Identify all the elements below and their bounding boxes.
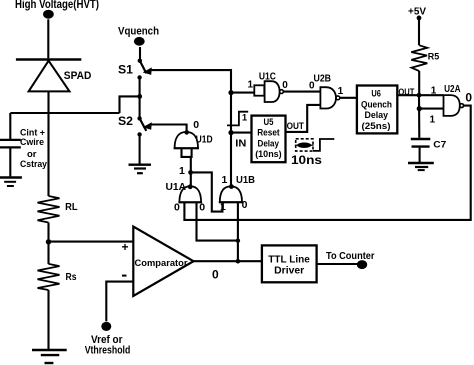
wire cross-couple Q to U1B input xyxy=(191,172,223,211)
wire U2A bottom input xyxy=(419,108,443,110)
node junction U2A second input xyxy=(417,106,422,111)
ground under S2 xyxy=(129,165,152,174)
node junction U5 IN tap xyxy=(228,130,233,135)
svg-text:0: 0 xyxy=(282,80,288,91)
component U5 Reset Delay box xyxy=(252,116,286,163)
svg-text:U1C: U1C xyxy=(259,72,276,83)
diode SPAD triangle xyxy=(29,61,70,92)
op-amp U2A bubble xyxy=(460,104,464,108)
svg-text:Cstray: Cstray xyxy=(20,159,48,170)
label - input xyxy=(122,275,127,277)
ground main xyxy=(32,350,67,363)
node junction jog xyxy=(236,239,240,243)
wire rising edge symbol xyxy=(227,112,248,126)
capacitor Cint bottom plate xyxy=(0,146,21,148)
switch S1 control arrowhead xyxy=(143,67,152,75)
node U1D output dot xyxy=(184,130,189,135)
wire branch node to Cint and switch node xyxy=(10,112,119,114)
svg-text:Rs: Rs xyxy=(66,271,77,283)
wire U6 OUT to U2A xyxy=(397,94,443,96)
wire U2B output to U6 xyxy=(340,97,357,99)
capacitor Cint top plate xyxy=(0,139,21,141)
svg-text:TTL Line: TTL Line xyxy=(268,255,310,266)
wire +5V to R5 xyxy=(418,19,420,45)
resistor R5 xyxy=(411,45,427,71)
wire comparator - input xyxy=(106,282,133,322)
op-amp U1C bubble xyxy=(280,90,284,94)
node junction comparator output xyxy=(236,259,241,264)
svg-text:0: 0 xyxy=(212,268,219,282)
resistor Rs xyxy=(38,264,60,290)
wire U5 OUT to U2B input xyxy=(286,105,321,132)
wire U2A output feedback to latch xyxy=(184,106,470,220)
wire C7 to ground xyxy=(419,148,421,162)
op-amp U2B NAND body xyxy=(320,87,336,108)
switch S2 bottom contact xyxy=(137,132,141,136)
wire SPAD anode down to RL xyxy=(47,91,49,196)
svg-text:Vquench: Vquench xyxy=(118,25,159,37)
svg-text:Reset: Reset xyxy=(257,128,280,138)
diode SPAD cathode bar xyxy=(16,58,81,61)
svg-text:RL: RL xyxy=(65,201,78,213)
wire Vquench to S1 xyxy=(139,47,141,59)
svg-text:+5V: +5V xyxy=(408,6,426,17)
op-amp U2A NAND body xyxy=(444,95,460,116)
svg-text:U1B: U1B xyxy=(236,175,255,186)
wire branch down to Cint xyxy=(9,113,11,140)
svg-text:Cwire: Cwire xyxy=(20,137,44,148)
svg-text:IN: IN xyxy=(235,139,246,150)
capacitor C7 bottom plate xyxy=(412,145,430,147)
wire U1D input stem to node 1 xyxy=(190,157,192,187)
svg-text:High Voltage(HVT): High Voltage(HVT) xyxy=(15,0,99,11)
wire S1 control from U1B output node xyxy=(151,70,231,186)
ground under C7 xyxy=(408,163,434,170)
svg-text:0: 0 xyxy=(174,202,180,214)
node Vref terminal xyxy=(101,322,111,331)
node U1A output dot xyxy=(188,184,193,189)
svg-text:0: 0 xyxy=(193,119,199,131)
op-amp U2B bubble xyxy=(336,96,340,100)
node junction latch Q xyxy=(188,170,193,175)
svg-text:S1: S1 xyxy=(118,63,133,77)
node +5V terminal xyxy=(417,16,422,21)
switch S2 lever xyxy=(140,118,147,130)
wire TTL driver output xyxy=(317,263,357,265)
svg-text:Comparator: Comparator xyxy=(135,258,188,269)
svg-text:U2A: U2A xyxy=(444,84,460,95)
wire U1C output to U2B xyxy=(284,91,321,93)
svg-text:1: 1 xyxy=(430,115,436,126)
wire U5 IN xyxy=(231,132,252,134)
node U1B output dot xyxy=(229,184,234,189)
svg-text:1: 1 xyxy=(242,112,248,123)
wire branch up to S1/S2 node xyxy=(120,96,140,113)
svg-text:1: 1 xyxy=(248,79,254,90)
component U6 Quench Delay box xyxy=(357,86,397,134)
svg-text:(10ns): (10ns) xyxy=(255,149,282,159)
svg-text:10ns: 10ns xyxy=(291,155,322,167)
svg-text:1: 1 xyxy=(220,201,226,213)
svg-text:To Counter: To Counter xyxy=(326,251,375,262)
svg-text:Quench: Quench xyxy=(361,99,392,109)
op-amp U1B NAND body xyxy=(220,186,242,202)
op-amp U1C NAND body xyxy=(265,81,280,102)
svg-text:C7: C7 xyxy=(433,139,446,150)
wire S2 to ground xyxy=(139,136,141,164)
wire U1B right input down to comparator output xyxy=(237,202,239,261)
svg-text:0: 0 xyxy=(465,90,472,104)
wire comparator output xyxy=(194,260,262,262)
svg-text:+: + xyxy=(122,240,129,254)
node junction R5 xyxy=(417,93,422,98)
switch S1 bottom contact xyxy=(137,75,141,79)
op-amp U1A NAND body xyxy=(179,186,201,202)
switch S1 lever xyxy=(140,61,147,73)
op-amp U1D NAND body xyxy=(175,132,198,148)
wire Cint to ground xyxy=(9,149,11,177)
svg-text:0: 0 xyxy=(199,202,205,214)
node junction on S1-S2 wire xyxy=(137,94,142,99)
svg-text:OUT: OUT xyxy=(287,121,304,132)
svg-text:Vthreshold: Vthreshold xyxy=(85,344,131,356)
capacitor C7 top plate xyxy=(411,138,431,140)
svg-text:(25ns): (25ns) xyxy=(362,121,391,131)
node junction comparator + input xyxy=(46,239,51,244)
node junction U1C tap xyxy=(228,90,233,95)
wire S2 control from U1D output xyxy=(151,125,187,132)
svg-text:Delay: Delay xyxy=(365,110,389,120)
svg-text:U6: U6 xyxy=(371,88,381,98)
node To Counter terminal xyxy=(357,260,367,269)
wire U1C input xyxy=(231,92,254,94)
wire U1C tied inputs box xyxy=(254,85,264,95)
svg-text:1: 1 xyxy=(338,86,344,97)
wire RL to node xyxy=(47,223,49,264)
wire HV terminal to SPAD cathode xyxy=(47,19,49,58)
svg-text:SPAD: SPAD xyxy=(64,70,92,82)
svg-text:1: 1 xyxy=(222,174,228,186)
svg-text:Driver: Driver xyxy=(274,266,304,277)
wire S1 to S2 xyxy=(139,79,141,117)
switch S1 top contact xyxy=(138,59,142,63)
svg-text:R5: R5 xyxy=(428,51,440,62)
node 10ns pulse glyph xyxy=(297,143,312,148)
wire 10ns dashed box xyxy=(296,139,313,151)
svg-text:S2: S2 xyxy=(118,114,133,128)
op-amp comparator triangle xyxy=(133,227,193,297)
svg-text:1: 1 xyxy=(431,85,437,96)
wire comparator + input xyxy=(49,241,134,243)
svg-text:0: 0 xyxy=(242,199,248,211)
wire OUT node down to C7 xyxy=(418,95,420,138)
wire U1D tied inputs neck xyxy=(182,148,192,157)
wire R5 to OUT node xyxy=(418,71,420,95)
svg-text:Delay: Delay xyxy=(258,139,280,149)
wire 10ns pulse step xyxy=(313,139,334,151)
node Vquench terminal xyxy=(134,37,145,46)
ground under Cint xyxy=(0,178,22,187)
switch S2 control arrowhead xyxy=(143,122,152,129)
component TTL Line Driver box xyxy=(262,245,317,282)
svg-text:U5: U5 xyxy=(264,117,274,127)
resistor RL xyxy=(38,196,60,223)
wire U1A right input to comparator output xyxy=(197,202,238,240)
wire Rs to ground xyxy=(47,290,49,350)
svg-text:1: 1 xyxy=(179,165,185,177)
svg-text:U1A: U1A xyxy=(166,182,187,193)
svg-text:U2B: U2B xyxy=(314,74,332,85)
svg-text:U1D: U1D xyxy=(196,135,213,146)
node High Voltage (HVT) terminal xyxy=(43,10,54,19)
switch S2 top contact xyxy=(137,116,141,120)
